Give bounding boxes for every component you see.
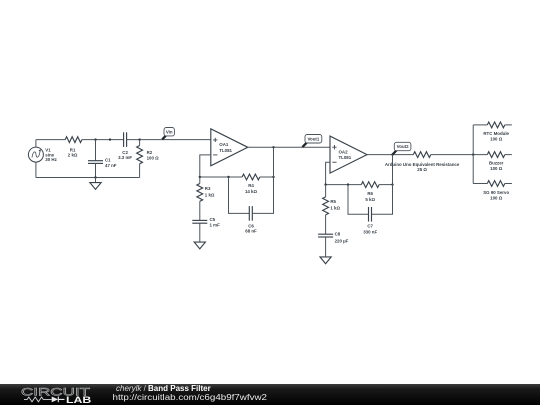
wire bottom rail (36, 177, 140, 179)
svg-text:100 Ω: 100 Ω (490, 195, 503, 200)
svg-text:25 Ω: 25 Ω (417, 167, 427, 172)
node Vout1 flag (302, 135, 321, 148)
wire load rail vertical (472, 125, 474, 184)
svg-text:R3: R3 (205, 186, 211, 191)
capacitor C6 branch (229, 177, 274, 233)
wire OA1 inverting input (200, 155, 211, 177)
wire feedback rail 1 (200, 176, 242, 178)
svg-text:100 Ω: 100 Ω (490, 137, 503, 142)
node junction ground (94, 176, 96, 178)
svg-text:30 Hz: 30 Hz (45, 157, 57, 162)
node output 1 junction (272, 146, 274, 148)
svg-text:Vout2: Vout2 (397, 144, 409, 149)
svg-text:220 µF: 220 µF (335, 238, 349, 243)
svg-text:cherylk / Band Pass Filter: cherylk / Band Pass Filter (116, 384, 211, 393)
voltage source V1 (28, 140, 57, 178)
node output 2 junction (391, 153, 393, 155)
wire feedback rail 2 (326, 184, 362, 186)
wire OA1 output (248, 146, 330, 148)
resistor R3 (197, 177, 215, 220)
svg-text:3.3 mF: 3.3 mF (118, 155, 132, 160)
node B junctions (324, 183, 326, 185)
resistor R1 (65, 137, 82, 158)
capacitor C1 (88, 140, 117, 178)
node junction C1 branch (94, 138, 96, 140)
capacitor C8 (318, 232, 349, 257)
resistor Buzzer (487, 152, 512, 171)
ground below C8 (320, 257, 331, 264)
node A junctions (199, 176, 201, 178)
resistor Arduino Uno Equivalent Resistance (385, 152, 460, 172)
resistor R5 (323, 185, 341, 235)
svg-text:100 Ω: 100 Ω (490, 166, 503, 171)
ground (90, 178, 101, 190)
wire top rail left (36, 139, 65, 141)
svg-text:5 kΩ: 5 kΩ (365, 197, 375, 202)
svg-text:LAB: LAB (66, 395, 92, 405)
CircuitLab logo (21, 386, 92, 405)
wire R1 to C2 (82, 139, 124, 141)
wire OA2 inverting input (326, 162, 330, 184)
capacitor C7 branch (348, 185, 393, 235)
op-amp OA2 TL081 (330, 136, 367, 173)
resistor R6 (361, 182, 379, 202)
svg-text:1 kΩ: 1 kΩ (330, 205, 340, 210)
node junction wire join (109, 138, 111, 140)
svg-text:330 nF: 330 nF (363, 230, 377, 235)
svg-text:R4: R4 (248, 183, 254, 188)
svg-text:2 kΩ: 2 kΩ (68, 152, 78, 157)
node Vin flag (162, 128, 174, 140)
svg-text:C7: C7 (367, 224, 373, 229)
node load junction (472, 153, 474, 155)
svg-text:http://circuitlab.com/c6g4b9f7: http://circuitlab.com/c6g4b9f7wfvw2 (113, 393, 268, 402)
resistor SG 90 Servo (473, 181, 512, 201)
svg-text:100 Ω: 100 Ω (147, 155, 160, 160)
resistor R2 (137, 140, 159, 178)
wire OA2 output (367, 154, 413, 156)
svg-text:R5: R5 (330, 199, 336, 204)
svg-text:68 nF: 68 nF (245, 228, 257, 233)
wire C2 to opamp (127, 139, 211, 141)
resistor RTC Module (473, 122, 512, 142)
resistor R4 (242, 174, 260, 194)
svg-text:C5: C5 (210, 217, 216, 222)
wire to load rail (431, 154, 488, 156)
svg-text:1 kΩ: 1 kΩ (205, 192, 215, 197)
svg-text:1 mF: 1 mF (210, 222, 221, 227)
svg-text:Vout1: Vout1 (307, 136, 319, 141)
capacitor C2 (118, 132, 132, 160)
wire output2 to feedback (392, 155, 394, 185)
svg-text:RTC Module: RTC Module (483, 131, 509, 136)
svg-text:TL081: TL081 (219, 148, 232, 153)
op-amp OA1 TL081 (211, 129, 248, 166)
wire output to feedback (273, 147, 275, 177)
svg-text:TL081: TL081 (339, 155, 352, 160)
ground below C5 (194, 242, 205, 249)
svg-text:C8: C8 (335, 232, 341, 237)
node Vout2 flag (393, 142, 411, 154)
svg-text:R6: R6 (367, 191, 373, 196)
svg-text:Vin: Vin (166, 129, 173, 134)
node junction R2 branch (138, 138, 140, 140)
svg-text:14 kΩ: 14 kΩ (245, 189, 258, 194)
svg-text:OA2: OA2 (339, 150, 349, 155)
svg-text:OA1: OA1 (219, 142, 229, 147)
svg-text:SG 90 Servo: SG 90 Servo (483, 190, 509, 195)
svg-text:47 nF: 47 nF (105, 163, 117, 168)
capacitor C5 (192, 217, 220, 242)
